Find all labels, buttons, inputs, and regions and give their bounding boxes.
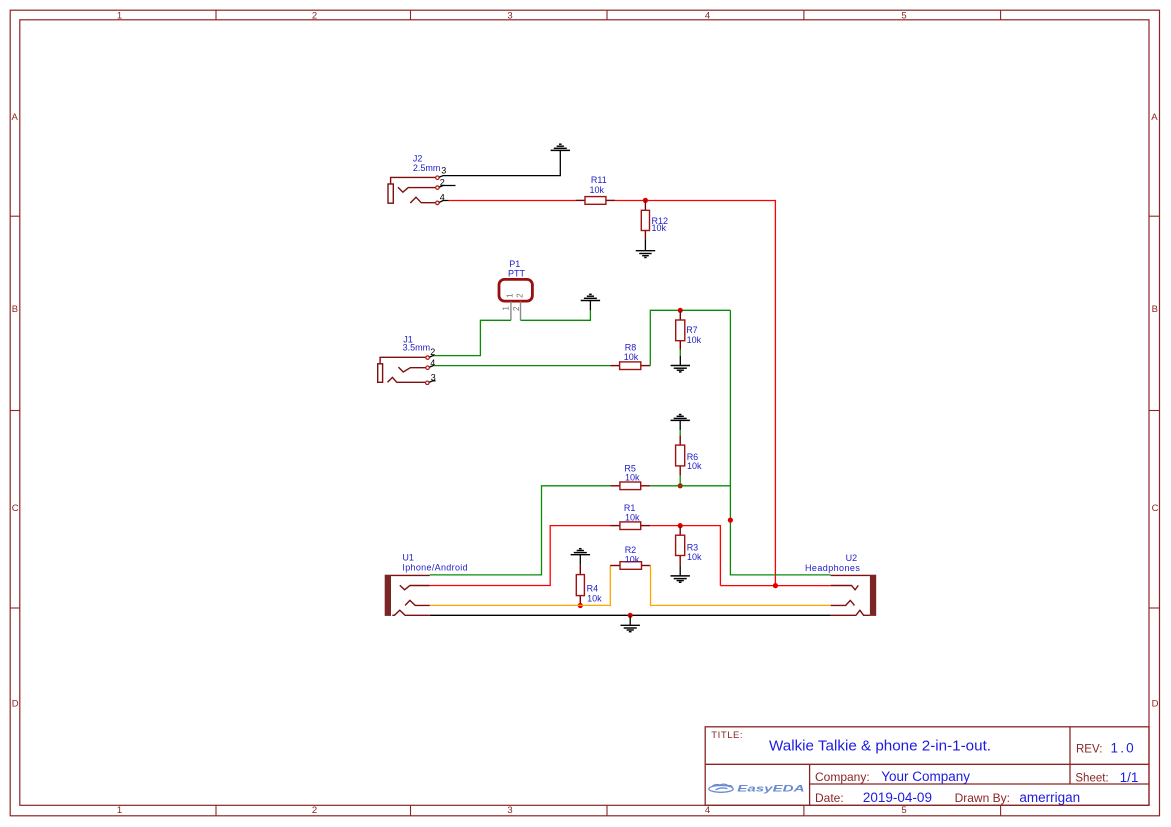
svg-text:10k: 10k — [625, 473, 640, 483]
connector U2 Headphones jack — [805, 553, 876, 616]
resistor R11 — [576, 175, 615, 204]
svg-text:5: 5 — [901, 805, 906, 816]
svg-text:3: 3 — [441, 166, 446, 176]
svg-text:2.5mm: 2.5mm — [413, 163, 441, 173]
svg-text:1: 1 — [117, 805, 122, 816]
svg-text:10k: 10k — [687, 461, 702, 471]
svg-text:R4: R4 — [587, 584, 599, 594]
wire R7 to ground (green) — [679, 350, 681, 356]
svg-text:Walkie Talkie & phone 2-in-1-o: Walkie Talkie & phone 2-in-1-out. — [769, 737, 991, 754]
svg-text:D: D — [1152, 698, 1159, 709]
wire down to U2 tip (green) — [730, 310, 830, 575]
svg-text:Date:: Date: — [815, 791, 844, 805]
connector J1 3.5mm jack symbol — [378, 357, 426, 382]
column labels bottom — [117, 805, 907, 816]
ground at P1 pin2 (pointing up) — [581, 294, 600, 310]
svg-text:Company:: Company: — [815, 770, 870, 784]
title block divider title/lower — [705, 763, 1149, 765]
svg-text:10k: 10k — [687, 335, 702, 345]
wire ground to R6 (green) — [679, 430, 681, 435]
wire J1 pin2 to P1 pin1 (green) — [434, 320, 511, 355]
ground above R4 (pointing up) — [571, 549, 590, 565]
svg-text:10k: 10k — [652, 223, 667, 233]
title block divider rev column — [1069, 727, 1071, 784]
svg-text:10k: 10k — [687, 552, 702, 562]
svg-text:Your Company: Your Company — [881, 769, 970, 784]
resistor R4 — [576, 564, 602, 605]
J2 pin 4 connection circle — [436, 201, 440, 205]
connector U1 Iphone/Android jack — [385, 552, 468, 616]
pushbutton P1 PTT — [499, 259, 532, 320]
title block divider logo column — [809, 764, 811, 805]
J1 pin3 stub (unconnected) — [429, 381, 435, 383]
wire U1 ring2 to R2 (orange) — [430, 566, 611, 606]
junction R1/R3 — [678, 523, 683, 528]
svg-text:amerrigan: amerrigan — [1019, 790, 1080, 805]
svg-text:R7: R7 — [686, 325, 698, 335]
svg-text:REV:: REV: — [1076, 743, 1102, 755]
svg-text:1.0: 1.0 — [1111, 741, 1136, 756]
column labels top — [117, 11, 907, 22]
svg-text:R3: R3 — [687, 542, 699, 552]
svg-text:2019-04-09: 2019-04-09 — [863, 790, 932, 805]
row labels right — [1151, 112, 1158, 710]
svg-text:3: 3 — [507, 805, 512, 816]
resistor R1 — [611, 503, 651, 529]
wire P1 pin2 to ground (green) — [521, 310, 591, 320]
wire U2 ring1 segment (red) — [720, 585, 830, 587]
svg-text:2: 2 — [515, 293, 524, 298]
resistor R6 — [676, 436, 702, 476]
resistor R8 — [610, 343, 650, 370]
svg-text:3: 3 — [431, 373, 436, 383]
svg-text:Iphone/Android: Iphone/Android — [402, 562, 468, 572]
svg-text:EasyEDA: EasyEDA — [737, 783, 804, 794]
svg-text:Drawn By:: Drawn By: — [955, 791, 1010, 805]
wire R8 up and right to R7 junction (green) — [650, 310, 730, 365]
svg-text:10k: 10k — [624, 352, 639, 362]
svg-text:Sheet:: Sheet: — [1075, 773, 1108, 785]
svg-text:A: A — [1151, 112, 1158, 123]
junction at R7 top — [678, 308, 683, 313]
EasyEDA logo cloud — [709, 784, 733, 792]
resistor R2 — [610, 545, 650, 569]
svg-text:4: 4 — [705, 11, 710, 22]
column ticks bottom — [216, 805, 1001, 816]
resistor R7 — [676, 310, 702, 349]
svg-text:4: 4 — [430, 358, 435, 368]
svg-text:5: 5 — [901, 11, 906, 22]
title block divider company/date — [810, 783, 1149, 785]
row ticks right — [1149, 216, 1160, 608]
wire R1 to U2 ring1 (red) — [650, 526, 720, 586]
svg-text:1/1: 1/1 — [1120, 770, 1139, 785]
svg-text:1: 1 — [502, 306, 511, 311]
row labels left — [12, 112, 19, 710]
junction R4/orange wire — [578, 603, 583, 608]
svg-text:U2: U2 — [846, 553, 858, 563]
junction bottom ground — [628, 613, 633, 618]
ground under R3 (pointing down) — [671, 565, 690, 582]
ground symbol at J2 pin3 (pointing up) — [551, 144, 570, 150]
junction red net at U2 — [773, 583, 778, 588]
svg-text:2: 2 — [312, 11, 317, 22]
wire J2 pin4 to R11 (red) — [449, 200, 576, 202]
svg-text:3.5mm: 3.5mm — [403, 342, 431, 352]
J1 pin4 stub — [430, 366, 435, 368]
svg-text:D: D — [12, 698, 19, 709]
svg-text:2: 2 — [312, 805, 317, 816]
svg-text:C: C — [1152, 503, 1159, 514]
resistor R3 — [676, 526, 702, 566]
bottom ground (pointing down) — [621, 615, 640, 631]
column ticks top — [216, 10, 1001, 20]
row ticks left — [10, 216, 20, 608]
svg-text:R2: R2 — [625, 545, 637, 555]
svg-text:1: 1 — [505, 293, 514, 298]
title block outline — [705, 727, 1149, 806]
svg-text:PTT: PTT — [508, 268, 526, 278]
svg-text:10k: 10k — [587, 594, 602, 604]
svg-text:B: B — [12, 304, 18, 315]
svg-text:2: 2 — [430, 347, 435, 357]
wire R11 to U2 net (red) — [615, 201, 776, 586]
wire U1 ring1 to R1 (red) — [430, 526, 611, 586]
ground above R6 (pointing up) — [671, 415, 690, 431]
J2 pin 2 stub (unconnected) — [439, 186, 455, 188]
J1 pin 2 connection circle — [426, 356, 430, 360]
svg-text:10k: 10k — [625, 555, 640, 565]
svg-text:Headphones: Headphones — [805, 563, 860, 573]
wire R5 to green bus (green) — [650, 485, 730, 487]
svg-text:10k: 10k — [590, 185, 605, 195]
wire J2 pin3 to ground (black) — [439, 150, 560, 177]
svg-text:2: 2 — [512, 306, 521, 311]
svg-text:10k: 10k — [625, 513, 640, 523]
svg-text:TITLE:: TITLE: — [711, 730, 743, 741]
wire J1 pin4 to R8 (green) — [434, 365, 610, 367]
J1 pin 4 connection circle — [426, 366, 430, 370]
svg-text:R11: R11 — [591, 175, 607, 185]
wire U1 tip up to R5 (green) — [430, 486, 611, 575]
ground under R12 (pointing down) — [636, 239, 655, 257]
svg-text:3: 3 — [507, 11, 512, 22]
svg-text:U1: U1 — [402, 552, 414, 562]
J2 pin 2 connection circle — [436, 186, 440, 190]
J2 pin4 stub — [439, 201, 448, 203]
J1 pin2 stub — [430, 356, 435, 358]
ground under R7 (pointing down) — [671, 356, 690, 372]
svg-text:2: 2 — [440, 177, 445, 187]
wire U1 sleeve to U2 sleeve (black) — [430, 614, 831, 616]
J1 pin 3 connection circle — [426, 381, 430, 385]
wire R2 to U2 ring2 (orange) — [651, 566, 831, 606]
svg-text:C: C — [12, 503, 19, 514]
svg-text:1: 1 — [117, 11, 122, 22]
svg-text:B: B — [1152, 304, 1158, 315]
svg-text:4: 4 — [705, 805, 710, 816]
junction R11/R12 — [643, 198, 648, 203]
junction R5/R6 — [678, 483, 683, 488]
svg-text:A: A — [12, 112, 19, 123]
svg-text:J2: J2 — [413, 153, 423, 163]
junction on green bus — [728, 518, 733, 523]
wire R6 to R5 junction (green) — [679, 476, 681, 486]
resistor R12 — [641, 200, 668, 239]
resistor R5 — [610, 463, 650, 489]
J2 pin 3 connection circle — [436, 176, 440, 180]
connector J2 2.5mm jack symbol — [388, 177, 435, 203]
